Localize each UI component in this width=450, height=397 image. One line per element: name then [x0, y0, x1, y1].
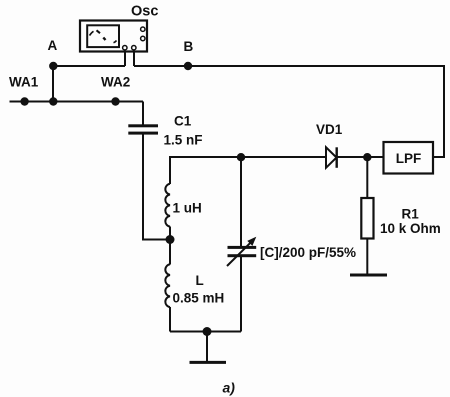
wire right edge vertical down to LPF [443, 65, 445, 157]
wire A to oscilloscope left terminal [53, 65, 125, 67]
ground below tank [190, 361, 227, 364]
wire tank right vertical upper to variable capacitor [240, 157, 242, 246]
svg-text:a): a) [223, 380, 236, 396]
junction dot below node A [49, 97, 57, 105]
node B junction dot [184, 62, 192, 70]
wire oscilloscope right terminal lead [133, 51, 135, 67]
junction dot tank ground [203, 327, 212, 336]
svg-text:Osc: Osc [131, 4, 158, 20]
inductor 1 uH coil [165, 184, 170, 227]
wire R1 top lead [366, 157, 368, 198]
wire tank ground lead [206, 332, 208, 363]
svg-text:WA2: WA2 [101, 75, 130, 90]
svg-text:1 uH: 1 uH [173, 201, 202, 216]
diode VD1 [326, 147, 337, 168]
svg-text:R1: R1 [402, 207, 420, 222]
wire C1 top lead [142, 102, 144, 125]
wire LPF output to right vertical [433, 156, 445, 158]
wire tank bottom horizontal [170, 331, 241, 333]
wire C1 bottom lead elbow to tank [143, 135, 170, 240]
svg-text:B: B [184, 39, 194, 54]
wire oscilloscope right terminal to node B to right edge [134, 65, 444, 67]
wire R1 bottom lead to ground [366, 239, 368, 276]
svg-text:WA1: WA1 [9, 75, 39, 90]
resistor R1 body [361, 198, 373, 239]
junction dot WA1 [20, 97, 28, 105]
wire node A down to WA bus [52, 66, 54, 102]
svg-text:A: A [48, 38, 58, 53]
variable capacitor C plates [228, 246, 257, 257]
svg-text:[C]/200 pF/55%: [C]/200 pF/55% [260, 245, 356, 260]
svg-text:1.5 nF: 1.5 nF [164, 133, 203, 148]
oscilloscope U Osc body [80, 21, 147, 52]
wire below inductor L [169, 307, 171, 332]
ground below R1 [350, 274, 387, 277]
junction dot WA2 [111, 97, 119, 105]
variable capacitor arrow [227, 237, 256, 266]
svg-text:LPF: LPF [396, 151, 422, 166]
svg-text:VD1: VD1 [316, 122, 343, 137]
capacitor C1 plates [128, 124, 158, 134]
wire variable capacitor to tank bottom [240, 257, 242, 332]
svg-text:0.85 mH: 0.85 mH [173, 291, 225, 306]
svg-text:10 k Ohm: 10 k Ohm [380, 221, 441, 236]
wire tank top horizontal to diode anode [170, 156, 326, 158]
wire between inductors [169, 227, 171, 265]
wire tank left vertical upper [169, 156, 171, 184]
wire WA bus horizontal [10, 101, 144, 103]
junction dot tank top [237, 153, 245, 161]
junction dot LPF input / R1 [363, 153, 371, 161]
inductor L coil [165, 264, 170, 307]
wire diode cathode to LPF input [337, 156, 384, 158]
block U LPF [384, 142, 434, 174]
svg-text:C1: C1 [174, 114, 192, 129]
svg-text:L: L [196, 273, 204, 288]
node A junction dot [49, 62, 57, 70]
junction dot C1 to coils [166, 235, 175, 244]
wire oscilloscope left terminal lead [124, 51, 126, 67]
